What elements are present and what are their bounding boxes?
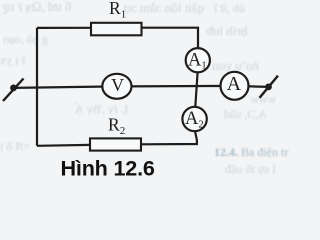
wire: A1 bottom through main node to A2 top xyxy=(195,72,197,107)
left terminal dot xyxy=(10,85,17,92)
wire: left vertical branch junction line xyxy=(36,28,38,146)
wire: R2 to bottom-left corner xyxy=(37,144,90,147)
wire: A2 bottom to corner and left to R2 xyxy=(141,131,197,144)
right terminal dot xyxy=(265,84,272,91)
left terminal slash xyxy=(3,79,24,102)
faint bleed-through background text xyxy=(2,0,71,15)
right terminal slash xyxy=(260,76,279,98)
ammeter A1 circle xyxy=(186,48,210,72)
svg-text:R2: R2 xyxy=(108,115,125,138)
svg-text:V: V xyxy=(111,75,124,95)
voltmeter V circle xyxy=(102,74,131,99)
wire: main horizontal line xyxy=(14,86,269,88)
ammeter A2 circle xyxy=(182,107,206,131)
svg-text:R1: R1 xyxy=(109,0,126,20)
svg-text:A: A xyxy=(227,73,242,95)
resistor R2 xyxy=(90,138,141,150)
wire: top branch left segment to R1 xyxy=(37,27,91,29)
wire: R1 to top-right corner and down to A1 xyxy=(142,28,199,49)
svg-text:Hình 12.6: Hình 12.6 xyxy=(61,156,155,181)
ammeter A circle xyxy=(221,72,249,100)
resistor R1 xyxy=(91,23,142,36)
